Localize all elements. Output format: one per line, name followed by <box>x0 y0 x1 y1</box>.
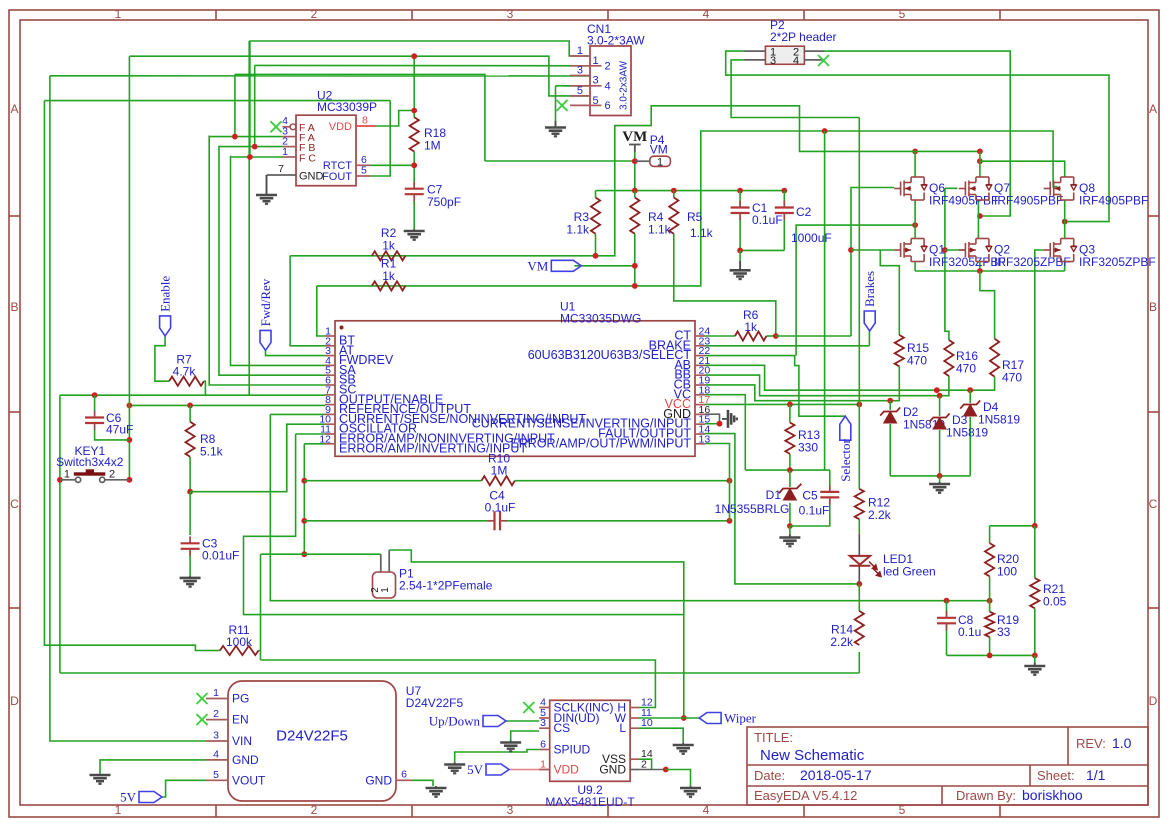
node Q8-Q3 junction <box>1062 219 1068 225</box>
resistor R13 <box>785 423 794 454</box>
node rail R4 junction <box>632 188 638 194</box>
svg-text:1N5819: 1N5819 <box>978 413 1020 427</box>
svg-text:1N5355BRLG: 1N5355BRLG <box>715 502 790 516</box>
svg-text:4: 4 <box>793 55 799 67</box>
svg-text:GND: GND <box>299 171 324 183</box>
node Q7-Q2 junction <box>977 213 983 219</box>
wire R18 bottom to C7 <box>413 152 415 189</box>
wire SELECT to Selector flag <box>705 356 845 417</box>
capacitor C5 <box>820 492 839 498</box>
ground <box>500 743 521 752</box>
wire CS to ground <box>511 731 540 741</box>
svg-text:VM: VM <box>622 129 647 145</box>
no-connect X U9 SCLK <box>523 702 534 713</box>
svg-text:60U63B3120U63B3/SELECT: 60U63B3120U63B3/SELECT <box>528 348 692 362</box>
wire pin12 vertical <box>303 444 305 554</box>
CN1 pin 6 <box>570 104 590 106</box>
wire vertical x=260 down to R11 right line <box>260 554 262 660</box>
U9 pin 1 VDD <box>539 769 550 771</box>
U1 pin 7 OUTPUT/ENABLE <box>325 394 335 396</box>
wire P2 pin3 staircase <box>731 60 859 118</box>
ground U2 pin7 <box>266 175 268 195</box>
wire R7 right to OUTPUT/ENABLE line <box>204 381 206 395</box>
node rail C1 junction <box>737 188 743 194</box>
wire long vertical x=824 S2 to VC line <box>824 131 826 470</box>
node CN1.1-FC junction <box>247 154 253 160</box>
resistor R20 <box>985 543 994 576</box>
regulator U7 D24V22F5 body <box>228 681 396 801</box>
wire FA net to VM line <box>235 74 485 161</box>
svg-text:2: 2 <box>311 803 318 817</box>
wire UpDown flag to DIN <box>506 720 539 722</box>
svg-text:C: C <box>10 497 19 511</box>
net flag 5V U9 <box>486 764 509 775</box>
svg-text:MC33039P: MC33039P <box>317 100 377 114</box>
CN1 pin 2 <box>570 65 590 67</box>
svg-text:5: 5 <box>213 769 219 781</box>
wire R6 right stub <box>766 335 775 337</box>
wire R2 to U1 AT <box>290 256 325 346</box>
node Q1 gate junction <box>848 247 854 253</box>
net flag UpDown <box>483 716 506 727</box>
svg-text:Brakes: Brakes <box>862 271 877 307</box>
U1 pin 15 CURRENT/SENSE/INVERTING/INPUT <box>695 423 705 425</box>
svg-text:PG: PG <box>232 692 249 706</box>
wire Q6 top stub <box>914 151 916 177</box>
svg-text:100k: 100k <box>226 635 253 649</box>
svg-text:5.1k: 5.1k <box>200 445 224 459</box>
svg-text:1.1k: 1.1k <box>566 223 590 237</box>
wire FOUT long line <box>44 100 390 102</box>
svg-text:Switch3x4x2: Switch3x4x2 <box>56 455 124 469</box>
wire R20 top line <box>990 525 1035 527</box>
svg-text:SPIUD: SPIUD <box>554 743 591 757</box>
svg-text:1: 1 <box>64 469 70 481</box>
ground R21/C8/R19 <box>1034 663 1036 667</box>
svg-text:IRF4905PBF: IRF4905PBF <box>1079 194 1148 208</box>
svg-text:led Green: led Green <box>883 565 936 579</box>
wire OSC node to pin10 <box>190 424 325 492</box>
diode D4 1N5819 <box>964 405 977 417</box>
svg-text:10: 10 <box>641 717 653 729</box>
net flag Selector <box>840 416 851 440</box>
wire Enable flag to R7 <box>155 336 169 382</box>
svg-text:1: 1 <box>577 45 583 57</box>
wire U7 GND right to ground <box>412 780 433 786</box>
wire CN1 pin2 line <box>255 64 590 66</box>
ground <box>404 231 425 240</box>
ground D1 <box>789 535 791 538</box>
wire GND pin2 <box>639 769 666 771</box>
svg-text:C2: C2 <box>796 205 812 219</box>
svg-text:1000uF: 1000uF <box>791 231 832 245</box>
wire U2 RTCT to R18/C7 node <box>370 164 414 166</box>
wire C2 bottom <box>783 218 785 250</box>
svg-text:3: 3 <box>577 65 583 77</box>
wire C1 top stub <box>739 191 741 208</box>
U1 pin 12 ERROR/AMP/INVERTING/INPUT <box>325 443 335 445</box>
no-connect X U2 pin4 <box>271 121 282 132</box>
wire R14 bottom stub <box>858 652 860 673</box>
U1 pin 10 OSCILLATOR <box>325 423 335 425</box>
IC U9 MAX5481EUD-T body <box>550 700 630 781</box>
resistor R5 <box>669 198 678 234</box>
capacitor C7 <box>405 189 424 195</box>
wire R13 bottom <box>789 454 791 470</box>
U7 pin 1 PG <box>206 698 228 700</box>
svg-text:7: 7 <box>278 163 284 175</box>
wire D3 bottom <box>939 430 941 476</box>
wire R3 bottom <box>595 234 597 256</box>
node R19 bottom junction <box>987 653 993 659</box>
wire R8 bottom <box>189 457 191 492</box>
svg-text:0.01uF: 0.01uF <box>202 549 239 563</box>
node Q6 top junction <box>912 149 918 155</box>
ground C7 <box>413 229 415 231</box>
CN1 pin 3 <box>570 75 590 77</box>
U1 pin 6 SC <box>325 384 335 386</box>
node R3 bottom junction <box>593 253 599 259</box>
svg-text:D: D <box>1149 694 1158 708</box>
U1 pin 14 FAULT/OUTPUT <box>695 433 705 435</box>
ground <box>1024 666 1045 675</box>
wire VDD net to CN1 pin5 <box>129 56 590 96</box>
U1 pin 17 VCC <box>695 404 705 406</box>
node C4 left junction <box>301 518 307 524</box>
svg-text:1k: 1k <box>744 320 758 334</box>
svg-text:0.1uF: 0.1uF <box>799 504 830 518</box>
wire source line down to R20/R21 feed <box>1034 271 1036 526</box>
wire to C3 <box>189 492 191 535</box>
wire U2 FB to U1 SB <box>219 146 325 376</box>
wire C4 left segment <box>304 520 491 522</box>
wire U2 FOUT riser <box>370 101 390 176</box>
svg-text:IRF3205ZPBF: IRF3205ZPBF <box>994 255 1071 269</box>
net flag Wiper <box>699 713 721 724</box>
ground U9 L <box>682 743 684 745</box>
node ref-C6net junction <box>126 403 132 409</box>
svg-text:47uF: 47uF <box>106 423 133 437</box>
wire Q1 source stub <box>914 262 916 271</box>
wire Q7 top stub <box>979 151 981 177</box>
svg-text:D1: D1 <box>766 488 782 502</box>
wire P2.3 feed down through VCC to R12 <box>858 118 860 489</box>
wire CN1 pin3 line <box>50 75 590 77</box>
U9 pin 12 H <box>630 707 639 709</box>
wire FwdRev flag to U1 FWDREV <box>266 350 326 355</box>
wire pin11 to wiper net <box>244 434 684 615</box>
svg-text:4.7k: 4.7k <box>173 365 197 379</box>
wire D3 top stub <box>939 396 941 416</box>
svg-text:3: 3 <box>770 55 776 67</box>
svg-text:12: 12 <box>319 433 331 445</box>
net flag FwdRev <box>260 330 271 350</box>
wire U2 FC to U1 SA <box>231 156 326 366</box>
resistor R8 <box>186 422 195 457</box>
wire R3 top stub <box>595 191 597 198</box>
wire P1 pin1 line <box>261 553 381 555</box>
wire phase A to SELECT jog <box>796 225 915 356</box>
wire CB line to R15 bottom <box>705 366 899 400</box>
wire diode common line <box>890 475 970 477</box>
capacitor C1 <box>731 208 750 214</box>
wire VCC line <box>705 403 859 405</box>
wire Q7 gate riser down to R16 <box>945 188 949 340</box>
ground <box>256 195 277 204</box>
wire C6 bottom to vertical <box>95 430 130 440</box>
U1 pin 13 ERROR/AMP/OUT/PWM/INPUT <box>695 443 705 445</box>
svg-text:1k: 1k <box>382 269 396 283</box>
wire Q8 drain to Q3 drain <box>1064 200 1066 239</box>
node R21 gnd junction <box>1032 653 1038 659</box>
wire R5 top stub <box>673 191 675 198</box>
CN1 pin 4 <box>570 85 590 87</box>
svg-text:EasyEDA V5.4.12: EasyEDA V5.4.12 <box>754 788 857 803</box>
transistor Q7 IRF4905PBF <box>959 177 989 200</box>
svg-text:GND: GND <box>365 773 392 787</box>
resistor R16 <box>944 340 953 376</box>
no-connect X U7 EN <box>197 714 208 725</box>
svg-text:100: 100 <box>997 565 1017 579</box>
svg-text:C5: C5 <box>802 489 818 503</box>
op-amp U1 MC33035DWG body <box>335 321 695 457</box>
wire P2 pin2 down to Q7-Q2 node <box>824 51 1010 216</box>
U9 pin 2 GND <box>630 769 639 771</box>
node AB crossing junction <box>934 387 940 393</box>
svg-text:1.1k: 1.1k <box>648 223 672 237</box>
wire R20-R19 link <box>989 576 991 611</box>
wire C2 top stub <box>783 191 785 208</box>
wire R10 right segment <box>515 480 730 482</box>
wire R2-R3 node staircase to Q7 top <box>372 106 980 256</box>
wire vertical CN1.1 net down to OUTPUT/ENABLE line <box>248 41 250 395</box>
P2 pin 2 <box>804 50 824 52</box>
ground <box>680 788 701 797</box>
connector CN1 3.0-2*3AW body <box>590 46 631 116</box>
svg-text:330: 330 <box>798 441 818 455</box>
svg-text:A: A <box>1149 102 1157 116</box>
wire D4 top stub <box>969 390 971 403</box>
U1 pin 23 BRAKE <box>695 345 705 347</box>
svg-text:13: 13 <box>699 433 711 445</box>
node diode gnd junction <box>937 473 943 479</box>
wire pin15 <box>705 423 720 425</box>
CN1 pin 1 <box>570 55 590 57</box>
wire LED1 to node <box>858 566 860 585</box>
wire BRAKE line <box>705 345 869 347</box>
svg-text:6: 6 <box>605 100 611 112</box>
svg-text:GND: GND <box>232 753 259 767</box>
wire pin12 line <box>304 443 325 445</box>
connector P2 2*2P header body <box>765 46 804 64</box>
resistor R12 <box>855 489 864 519</box>
wire L to ground <box>639 728 683 743</box>
node rail R5 junction <box>671 188 677 194</box>
wire pin13 vertical <box>705 444 730 521</box>
wire Brakes flag stem <box>868 331 870 346</box>
net flag Enable <box>160 316 171 336</box>
wire GND pin16 <box>705 414 720 424</box>
wire BB line to R16 bottom <box>705 375 949 396</box>
svg-text:2: 2 <box>641 759 647 771</box>
ground U9 CS <box>510 741 512 743</box>
resistor R3 <box>591 198 600 234</box>
svg-text:5V: 5V <box>120 790 137 805</box>
zener diode D1 1N5355BRLG <box>783 489 796 501</box>
svg-text:1k: 1k <box>382 239 396 253</box>
ground <box>90 775 111 784</box>
resistor R4 <box>630 198 639 234</box>
svg-text:3: 3 <box>593 75 599 87</box>
svg-text:REV:: REV: <box>1076 736 1106 751</box>
resistor R19 <box>985 612 994 637</box>
svg-text:TITLE:: TITLE: <box>754 730 793 745</box>
node D3 junction <box>937 393 943 399</box>
resistor R6 <box>735 331 766 340</box>
U1 pin 18 VC <box>695 394 705 396</box>
svg-text:MC33035DWG: MC33035DWG <box>560 312 641 326</box>
svg-text:A: A <box>10 102 18 116</box>
svg-text:VIN: VIN <box>232 734 252 748</box>
node VM-P4 junction <box>632 158 638 164</box>
wire diode node to ground <box>939 476 941 482</box>
svg-text:IRF3205ZPBF: IRF3205ZPBF <box>1079 255 1156 269</box>
wire R4 top stub <box>634 191 636 198</box>
wire R12 to LED1 <box>858 534 860 556</box>
node R19-R20 junction <box>987 598 993 604</box>
wire REFERENCE/OUTPUT line <box>129 404 325 406</box>
wire pin9 line <box>270 413 325 415</box>
svg-text:EN: EN <box>232 713 249 727</box>
svg-text:1: 1 <box>380 587 391 593</box>
wire U9 gnd to ground <box>666 770 691 787</box>
resistor R2 <box>372 251 406 260</box>
wire LED node to R14 top <box>858 584 860 611</box>
wire VM symbol to rail <box>634 146 636 191</box>
svg-text:1: 1 <box>213 687 219 699</box>
wire R1 to U1 BT <box>317 286 325 336</box>
wire W to Wiper flag <box>639 717 699 719</box>
U2 pin 7 GND <box>267 174 297 176</box>
wire AB line to R17 <box>705 365 995 390</box>
svg-text:1: 1 <box>115 7 122 21</box>
wire C5 top stub <box>829 470 831 492</box>
no-connect X P2 pin4 <box>818 55 829 66</box>
U1 pin 8 REFERENCE/OUTPUT <box>325 404 335 406</box>
svg-text:B: B <box>1149 300 1157 314</box>
svg-text:0.1u: 0.1u <box>958 625 981 639</box>
svg-text:New Schematic: New Schematic <box>760 747 865 764</box>
wire 5V to VDD <box>509 769 550 771</box>
svg-text:1M: 1M <box>491 464 508 478</box>
wire R21 top link <box>1034 526 1036 578</box>
U1 pin 22 60U63B3120U63B3/SELECT <box>695 355 705 357</box>
wire CN1 pin4 horizontal <box>556 85 591 87</box>
U2 pin 6 RTCT <box>356 164 370 166</box>
svg-text:Fwd/Rev: Fwd/Rev <box>258 278 273 326</box>
svg-text:3: 3 <box>540 717 546 729</box>
svg-text:GND: GND <box>599 763 626 777</box>
svg-text:1M: 1M <box>424 139 441 153</box>
node CN1.2-FB junction <box>252 144 258 150</box>
node R4 bottom junction <box>632 283 638 289</box>
svg-text:2: 2 <box>605 60 611 72</box>
svg-text:6: 6 <box>401 769 407 781</box>
node C1 gnd junction <box>737 248 743 254</box>
svg-text:5: 5 <box>361 165 367 177</box>
resistor R21 <box>1030 578 1039 608</box>
svg-text:33: 33 <box>997 625 1011 639</box>
node D4 junction <box>967 387 973 393</box>
wire R11 right to U9 H pin <box>261 660 656 708</box>
node C8 top junction <box>944 598 950 604</box>
svg-text:1: 1 <box>540 759 546 771</box>
svg-text:Selector: Selector <box>838 439 853 482</box>
U7 pin 2 EN <box>206 719 228 721</box>
wire P1 pin2 to Wiper line <box>389 550 684 718</box>
wire U2 FC pin line <box>231 156 283 158</box>
U7 pin 6 GND <box>396 779 412 781</box>
ground <box>444 765 465 774</box>
svg-text:R5: R5 <box>687 210 703 224</box>
svg-text:3: 3 <box>213 730 219 742</box>
U1 pin 21 AB <box>695 364 705 366</box>
wire Q6 drain to Q1 drain <box>914 200 916 239</box>
node VDD-R18 junction <box>411 108 417 114</box>
svg-text:Wiper: Wiper <box>724 711 757 726</box>
U1 pin 19 CB <box>695 384 705 386</box>
node Wiper junction <box>681 715 687 721</box>
node Q7 top junction <box>977 158 983 164</box>
svg-text:MAX5481EUD-T: MAX5481EUD-T <box>545 795 635 809</box>
U9 pin 3 CS <box>539 727 550 729</box>
svg-text:3: 3 <box>507 803 514 817</box>
resistor R7 <box>169 377 204 386</box>
wire CN1 pin4 down to ground <box>555 86 557 121</box>
U2 pin 5 FOUT <box>356 175 370 177</box>
wire R5 bottom to R6 right <box>674 234 776 336</box>
node P2.1-FA junction <box>232 134 238 140</box>
wire Q1 gate riser down to R15 <box>880 250 899 335</box>
node Q2 source junction <box>977 268 983 274</box>
wire U2 FA pin line <box>209 136 282 138</box>
LED LED1 led Green <box>850 556 870 565</box>
svg-text:3.0-2*3AW: 3.0-2*3AW <box>587 34 645 48</box>
transistor Q2 IRF3205ZPBF <box>959 239 989 262</box>
svg-text:1N5819: 1N5819 <box>946 426 988 440</box>
node P1 line junction <box>301 551 307 557</box>
node D1 top junction <box>787 467 793 473</box>
capacitor C8 <box>937 618 956 624</box>
svg-text:3: 3 <box>507 7 514 21</box>
transistor Q6 IRF4905PBF <box>894 177 924 200</box>
wire SPIUD to ground <box>455 750 540 763</box>
resistor R15 <box>895 335 904 366</box>
wire CN1 pin1 from node bundle <box>249 41 590 56</box>
wire CN1 pin4 short <box>564 85 590 87</box>
wire FAULT pin14 down to LED bottom <box>705 434 859 584</box>
U7 pin 5 VOUT <box>206 779 228 781</box>
wire R2 left <box>290 255 372 257</box>
wire R19 bottom <box>989 637 991 655</box>
wire C3 to ground <box>189 549 191 576</box>
wire VM flag to R4 column <box>574 265 635 267</box>
resistor R11 <box>220 646 259 655</box>
ground C3 <box>189 576 191 578</box>
wire U2 VDD to R18 <box>376 111 414 127</box>
ground CN1 <box>555 121 557 128</box>
U1 pin 9 CURRENT/SENSE/NONINVERTING/INPUT <box>325 413 335 415</box>
